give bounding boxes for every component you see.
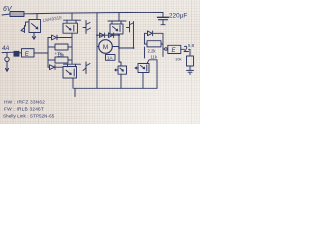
svg-text:4A: 4A: [2, 46, 9, 52]
svg-text:HW : IRFZ 33N62: HW : IRFZ 33N62: [4, 100, 45, 106]
svg-text:5.8: 5.8: [188, 43, 195, 48]
svg-text:LM4931E: LM4931E: [42, 15, 62, 23]
svg-text:220µF: 220µF: [169, 13, 187, 20]
svg-text:E: E: [172, 48, 177, 54]
svg-text:11k: 11k: [151, 55, 158, 60]
svg-text:Shelly Link : STP52N-65: Shelly Link : STP52N-65: [3, 114, 55, 119]
svg-text:E: E: [25, 50, 30, 57]
svg-text:FW : IRLB 3246T: FW : IRLB 3246T: [4, 107, 44, 113]
svg-text:M: M: [103, 44, 109, 51]
svg-text:2.2k: 2.2k: [148, 48, 157, 53]
svg-text:10k: 10k: [175, 57, 181, 62]
svg-text:1A: 1A: [107, 56, 114, 61]
svg-text:10k: 10k: [58, 53, 66, 58]
